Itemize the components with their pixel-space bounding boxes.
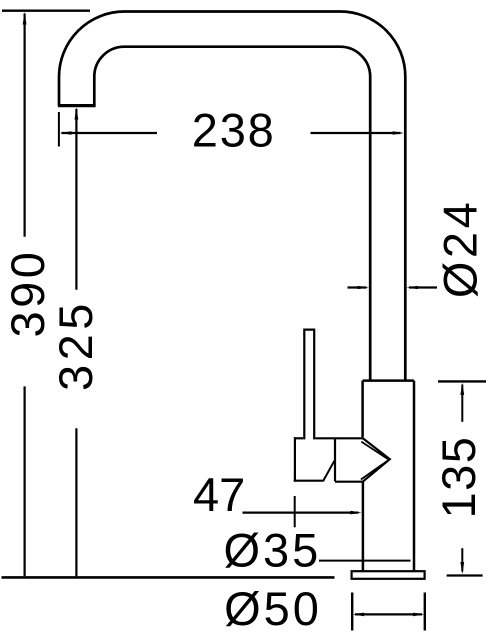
dimension line 238 left segment bbox=[62, 132, 158, 134]
arrow right diam24 left bbox=[358, 286, 370, 289]
handle body divider bbox=[334, 438, 336, 482]
dimension line 47 bbox=[243, 511, 359, 513]
arrow right 238 bbox=[393, 131, 405, 135]
handle body facet diagonal bbox=[323, 461, 334, 481]
svg-text:238: 238 bbox=[192, 104, 276, 157]
svg-text:Ø50: Ø50 bbox=[224, 582, 322, 633]
top extension line bbox=[2, 9, 90, 11]
svg-text:47: 47 bbox=[193, 468, 245, 521]
arrow up 325 bbox=[75, 107, 79, 120]
dimension line diam24 right segment bbox=[409, 286, 437, 288]
arrow left 238 bbox=[60, 131, 72, 135]
arrow right diam50 bbox=[413, 613, 424, 617]
handle lever bar bbox=[304, 330, 314, 440]
dimension line 238 right segment bbox=[311, 132, 401, 134]
svg-text:135: 135 bbox=[432, 436, 485, 519]
dimension line diam24 left segment bbox=[348, 286, 367, 288]
dimension line 390 lower segment bbox=[24, 386, 26, 576]
extension line 135 bottom bbox=[447, 574, 483, 576]
dimension line 135 lower segment bbox=[461, 548, 463, 571]
arrow up 390 bbox=[23, 12, 27, 25]
extension line diam50 right bbox=[424, 593, 426, 631]
dimension line 325 lower segment bbox=[75, 428, 77, 576]
body shoulder bbox=[363, 379, 414, 382]
extension line 47 bbox=[294, 496, 296, 527]
leader line diam35 bbox=[319, 560, 411, 562]
dimension line 135 upper segment bbox=[461, 385, 463, 422]
handle wedge top line bbox=[315, 437, 363, 439]
dimension line 325 upper segment bbox=[75, 109, 77, 290]
handle wedge outline bbox=[335, 438, 390, 481]
arrow up 135 bbox=[460, 383, 464, 395]
base flange bbox=[352, 571, 425, 579]
spout outlet face bbox=[58, 104, 96, 107]
body left wall lower bbox=[362, 482, 365, 572]
extension line spout left bbox=[58, 112, 60, 147]
body right wall bbox=[413, 381, 416, 572]
handle body left wall bbox=[294, 437, 296, 482]
counter deck line bbox=[2, 576, 335, 579]
dimension line diam50 bbox=[355, 613, 422, 615]
faucet spout inner profile bbox=[94, 47, 370, 380]
handle wedge inner upper diagonal bbox=[361, 442, 388, 460]
svg-text:325: 325 bbox=[49, 299, 102, 391]
handle body bottom-left segment bbox=[294, 480, 324, 482]
arrow left diam50 bbox=[353, 613, 364, 617]
svg-text:Ø35: Ø35 bbox=[223, 523, 321, 576]
svg-text:390: 390 bbox=[1, 249, 54, 338]
faucet spout outer profile bbox=[59, 11, 405, 380]
extension line 135 top bbox=[438, 380, 486, 382]
extension line diam50 left bbox=[351, 593, 353, 631]
body left wall upper bbox=[361, 381, 364, 438]
handle body top-left segment bbox=[295, 437, 303, 439]
arrow left diam24 right bbox=[406, 286, 418, 289]
arrow right 47 bbox=[350, 511, 361, 515]
svg-text:Ø24: Ø24 bbox=[434, 199, 486, 298]
dimension line 390 upper segment bbox=[24, 14, 26, 237]
handle wedge inner lower diagonal bbox=[361, 461, 388, 480]
arrow down 135 bbox=[460, 562, 464, 574]
